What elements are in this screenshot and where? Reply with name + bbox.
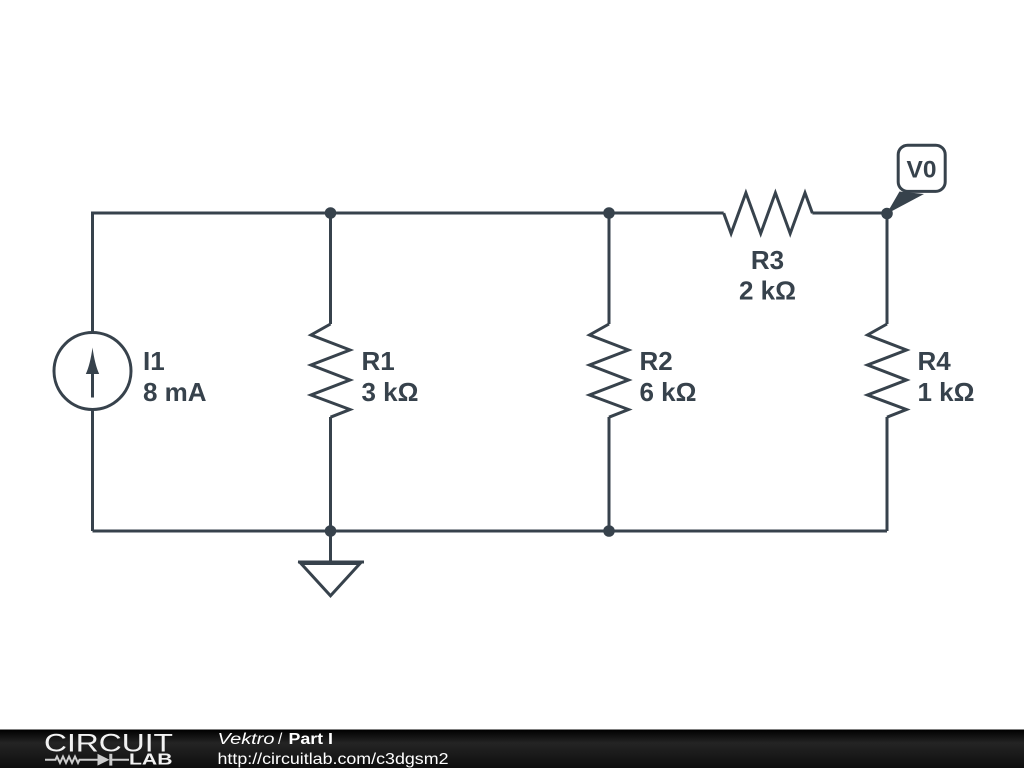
CircuitLab logo wordmark CIRCUIT	[44, 730, 173, 758]
resistor R1	[311, 324, 350, 417]
svg-text:R3: R3	[751, 245, 784, 275]
svg-text:R1: R1	[362, 346, 395, 376]
svg-text:R4: R4	[918, 346, 952, 376]
URL text	[218, 751, 449, 768]
label R3 2 kOhm	[739, 245, 796, 306]
node B junction top R2	[603, 207, 615, 219]
footer bar	[0, 730, 1024, 768]
wire left rail lower	[91, 410, 94, 531]
svg-text:2 kΩ: 2 kΩ	[739, 276, 796, 306]
svg-text:3 kΩ: 3 kΩ	[362, 377, 419, 407]
current source I1	[54, 333, 131, 410]
svg-text:V0: V0	[907, 157, 937, 184]
wire R4 bottom lead	[886, 417, 889, 531]
wire R1 top lead	[329, 213, 332, 324]
CircuitLab logo resistor-diode glyph	[45, 754, 129, 766]
wire R4 top lead	[886, 213, 889, 324]
svg-text:I1: I1	[143, 346, 165, 376]
svg-text:/: /	[278, 731, 283, 748]
resistor R4	[868, 324, 907, 417]
wire R2 top lead	[608, 213, 611, 324]
label R1 3 kOhm	[362, 346, 419, 407]
node A junction top R1	[325, 207, 337, 219]
resistor R2	[590, 324, 629, 417]
wire top rail left segment	[93, 212, 724, 215]
node C junction bottom R1	[325, 525, 337, 537]
svg-text:http://circuitlab.com/c3dgsm2: http://circuitlab.com/c3dgsm2	[218, 751, 449, 768]
node V0 junction top R4	[881, 208, 893, 220]
label R2 6 kOhm	[640, 346, 697, 407]
resistor R3	[724, 193, 813, 234]
wire R1 bottom lead	[329, 417, 332, 531]
svg-text:1 kΩ: 1 kΩ	[918, 377, 975, 407]
node D junction bottom R2	[603, 525, 615, 537]
svg-text:Part I: Part I	[289, 731, 334, 748]
wire left rail upper	[91, 212, 94, 332]
ground	[298, 531, 364, 596]
label I1 8 mA	[143, 346, 207, 407]
net flag V0	[887, 145, 946, 214]
wire top rail right segment	[812, 212, 887, 215]
svg-text:Vektro: Vektro	[218, 731, 275, 748]
title text Vektro / Part I	[218, 731, 334, 748]
CircuitLab logo wordmark LAB	[129, 752, 173, 768]
label R4 1 kOhm	[918, 346, 975, 407]
label V0	[907, 157, 937, 184]
svg-text:8 mA: 8 mA	[143, 377, 207, 407]
wire R2 bottom lead	[608, 417, 611, 531]
svg-text:6 kΩ: 6 kΩ	[640, 377, 697, 407]
svg-text:LAB: LAB	[129, 752, 173, 768]
svg-text:R2: R2	[640, 346, 673, 376]
wire bottom rail	[93, 530, 888, 533]
